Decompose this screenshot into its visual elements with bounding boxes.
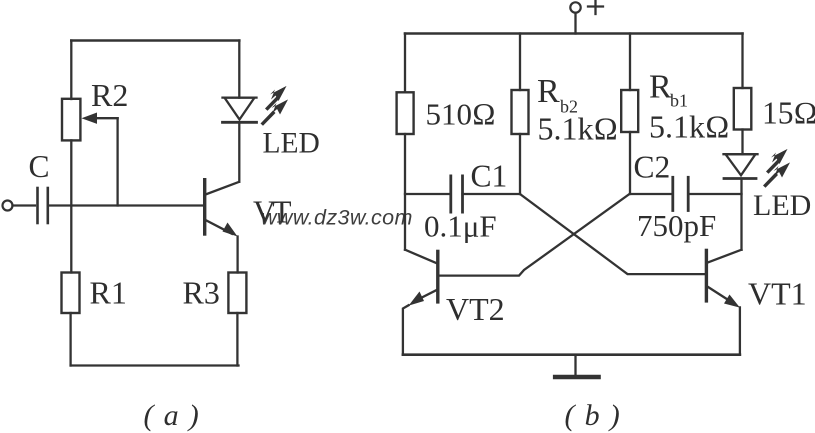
R2 wiper arrow bbox=[82, 113, 118, 124]
svg-text:( a ): ( a ) bbox=[144, 399, 200, 432]
svg-text:C2: C2 bbox=[634, 150, 671, 185]
resistor Rb2 bbox=[512, 90, 529, 134]
wire bbox=[740, 179, 742, 250]
resistor Rb1 bbox=[621, 90, 638, 132]
svg-text:R1: R1 bbox=[90, 275, 127, 311]
capacitor C2 bbox=[630, 177, 742, 210]
svg-text:VT1: VT1 bbox=[748, 276, 807, 312]
svg-text:C1: C1 bbox=[471, 159, 508, 194]
LED diode b bbox=[724, 154, 758, 178]
svg-text:750pF: 750pF bbox=[637, 208, 716, 243]
wire bbox=[236, 237, 238, 273]
svg-text:R3: R3 bbox=[183, 275, 220, 311]
svg-text:R: R bbox=[649, 69, 672, 106]
wire bbox=[238, 41, 240, 98]
wire bbox=[236, 313, 238, 366]
transistor VT bbox=[205, 180, 239, 237]
wire bbox=[116, 118, 118, 205]
wire bbox=[48, 204, 204, 206]
svg-text:15Ω: 15Ω bbox=[762, 96, 815, 131]
wire bottom rail bbox=[403, 353, 740, 356]
wire bbox=[404, 34, 406, 93]
wire cross D2 bbox=[439, 194, 630, 276]
input terminal bbox=[3, 201, 13, 211]
wire bbox=[741, 130, 743, 155]
svg-text:510Ω: 510Ω bbox=[426, 97, 496, 132]
resistor R2 bbox=[62, 99, 80, 141]
wire bbox=[70, 140, 72, 272]
svg-text:( b ): ( b ) bbox=[565, 399, 621, 432]
wire top rail bbox=[405, 32, 743, 35]
transistor VT1 bbox=[706, 250, 740, 354]
LED diode bbox=[223, 98, 257, 123]
capacitor C1 bbox=[405, 176, 520, 212]
ground bbox=[555, 355, 598, 377]
wire bbox=[629, 132, 631, 194]
LED light arrows bbox=[261, 86, 289, 126]
wire bbox=[404, 134, 406, 250]
svg-text:b1: b1 bbox=[670, 91, 688, 111]
wire bbox=[519, 134, 521, 194]
resistor 510 bbox=[397, 92, 414, 134]
resistor 15 bbox=[734, 88, 752, 130]
svg-text:C: C bbox=[29, 149, 50, 184]
svg-text:5.1kΩ: 5.1kΩ bbox=[538, 111, 619, 147]
capacitor C bbox=[38, 188, 48, 223]
transistor VT2 bbox=[403, 251, 438, 354]
wire bbox=[13, 204, 36, 206]
wire bbox=[405, 250, 437, 264]
wire bbox=[519, 34, 521, 91]
wire cross D1 bbox=[520, 194, 706, 274]
svg-text:R: R bbox=[537, 73, 560, 110]
svg-text:0.1μF: 0.1μF bbox=[424, 209, 497, 244]
svg-text:5.1kΩ: 5.1kΩ bbox=[649, 109, 730, 145]
svg-text:LED: LED bbox=[263, 128, 320, 160]
resistor R3 bbox=[228, 273, 246, 314]
svg-text:R2: R2 bbox=[91, 77, 128, 113]
wire bbox=[69, 313, 71, 366]
wire bbox=[629, 34, 631, 91]
wire bbox=[238, 122, 240, 182]
svg-text:LED: LED bbox=[753, 189, 811, 222]
wire bbox=[708, 250, 742, 263]
LED b light arrows bbox=[763, 149, 790, 188]
resistor R1 bbox=[62, 273, 80, 314]
svg-text:VT2: VT2 bbox=[446, 291, 505, 327]
wire bbox=[574, 13, 576, 34]
wire bbox=[741, 34, 743, 89]
wire bbox=[70, 41, 72, 100]
wire bottom bbox=[71, 364, 239, 366]
wire top bbox=[71, 39, 239, 42]
svg-text:www.dz3w.com: www.dz3w.com bbox=[261, 206, 413, 230]
power terminal + bbox=[570, 0, 603, 14]
